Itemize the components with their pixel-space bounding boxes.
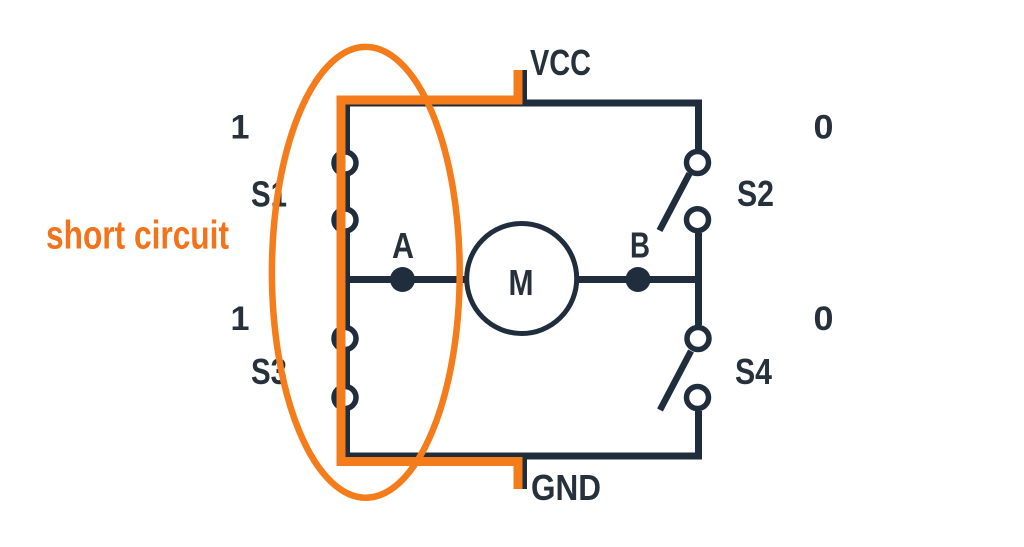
wire left branch vertical xyxy=(343,100,350,460)
svg-text:1: 1 xyxy=(231,300,250,338)
GND stub dark xyxy=(520,453,527,489)
wire motor right segment xyxy=(575,276,702,283)
switch S4 lever (open) xyxy=(660,351,691,410)
wire motor left segment xyxy=(346,276,470,283)
short-circuit current path (orange) xyxy=(341,70,518,489)
svg-text:VCC: VCC xyxy=(530,42,591,83)
node B junction dot xyxy=(626,267,651,292)
VCC stub dark xyxy=(520,70,527,103)
node A junction dot xyxy=(390,267,415,292)
svg-text:S4: S4 xyxy=(735,351,772,392)
wire right branch upper segment xyxy=(695,100,702,150)
wire bottom rail xyxy=(343,453,702,460)
switch S1 contact bottom xyxy=(334,209,356,231)
switch S2 lever (open) xyxy=(660,174,690,231)
switch S3 contact top xyxy=(334,328,356,350)
svg-text:0: 0 xyxy=(814,300,834,338)
switch S4 contact top xyxy=(687,328,709,350)
svg-text:0: 0 xyxy=(814,109,834,147)
wire right branch middle segment xyxy=(695,233,702,325)
svg-text:B: B xyxy=(630,225,650,266)
svg-text:short circuit: short circuit xyxy=(46,214,229,258)
svg-text:M: M xyxy=(509,262,534,303)
svg-text:S2: S2 xyxy=(737,173,774,214)
motor M circle xyxy=(467,224,577,334)
svg-text:GND: GND xyxy=(531,467,601,508)
switch S3 contact bottom xyxy=(334,387,356,409)
short-circuit highlight ellipse xyxy=(272,47,460,498)
svg-text:A: A xyxy=(392,225,414,266)
wire right branch lower segment xyxy=(695,411,702,460)
wire top rail xyxy=(343,100,702,107)
switch S4 contact bottom xyxy=(687,387,709,409)
switch S2 contact bottom xyxy=(687,209,709,231)
switch S2 contact top xyxy=(687,152,709,174)
switch S1 contact top xyxy=(334,152,356,174)
svg-text:1: 1 xyxy=(231,109,250,147)
